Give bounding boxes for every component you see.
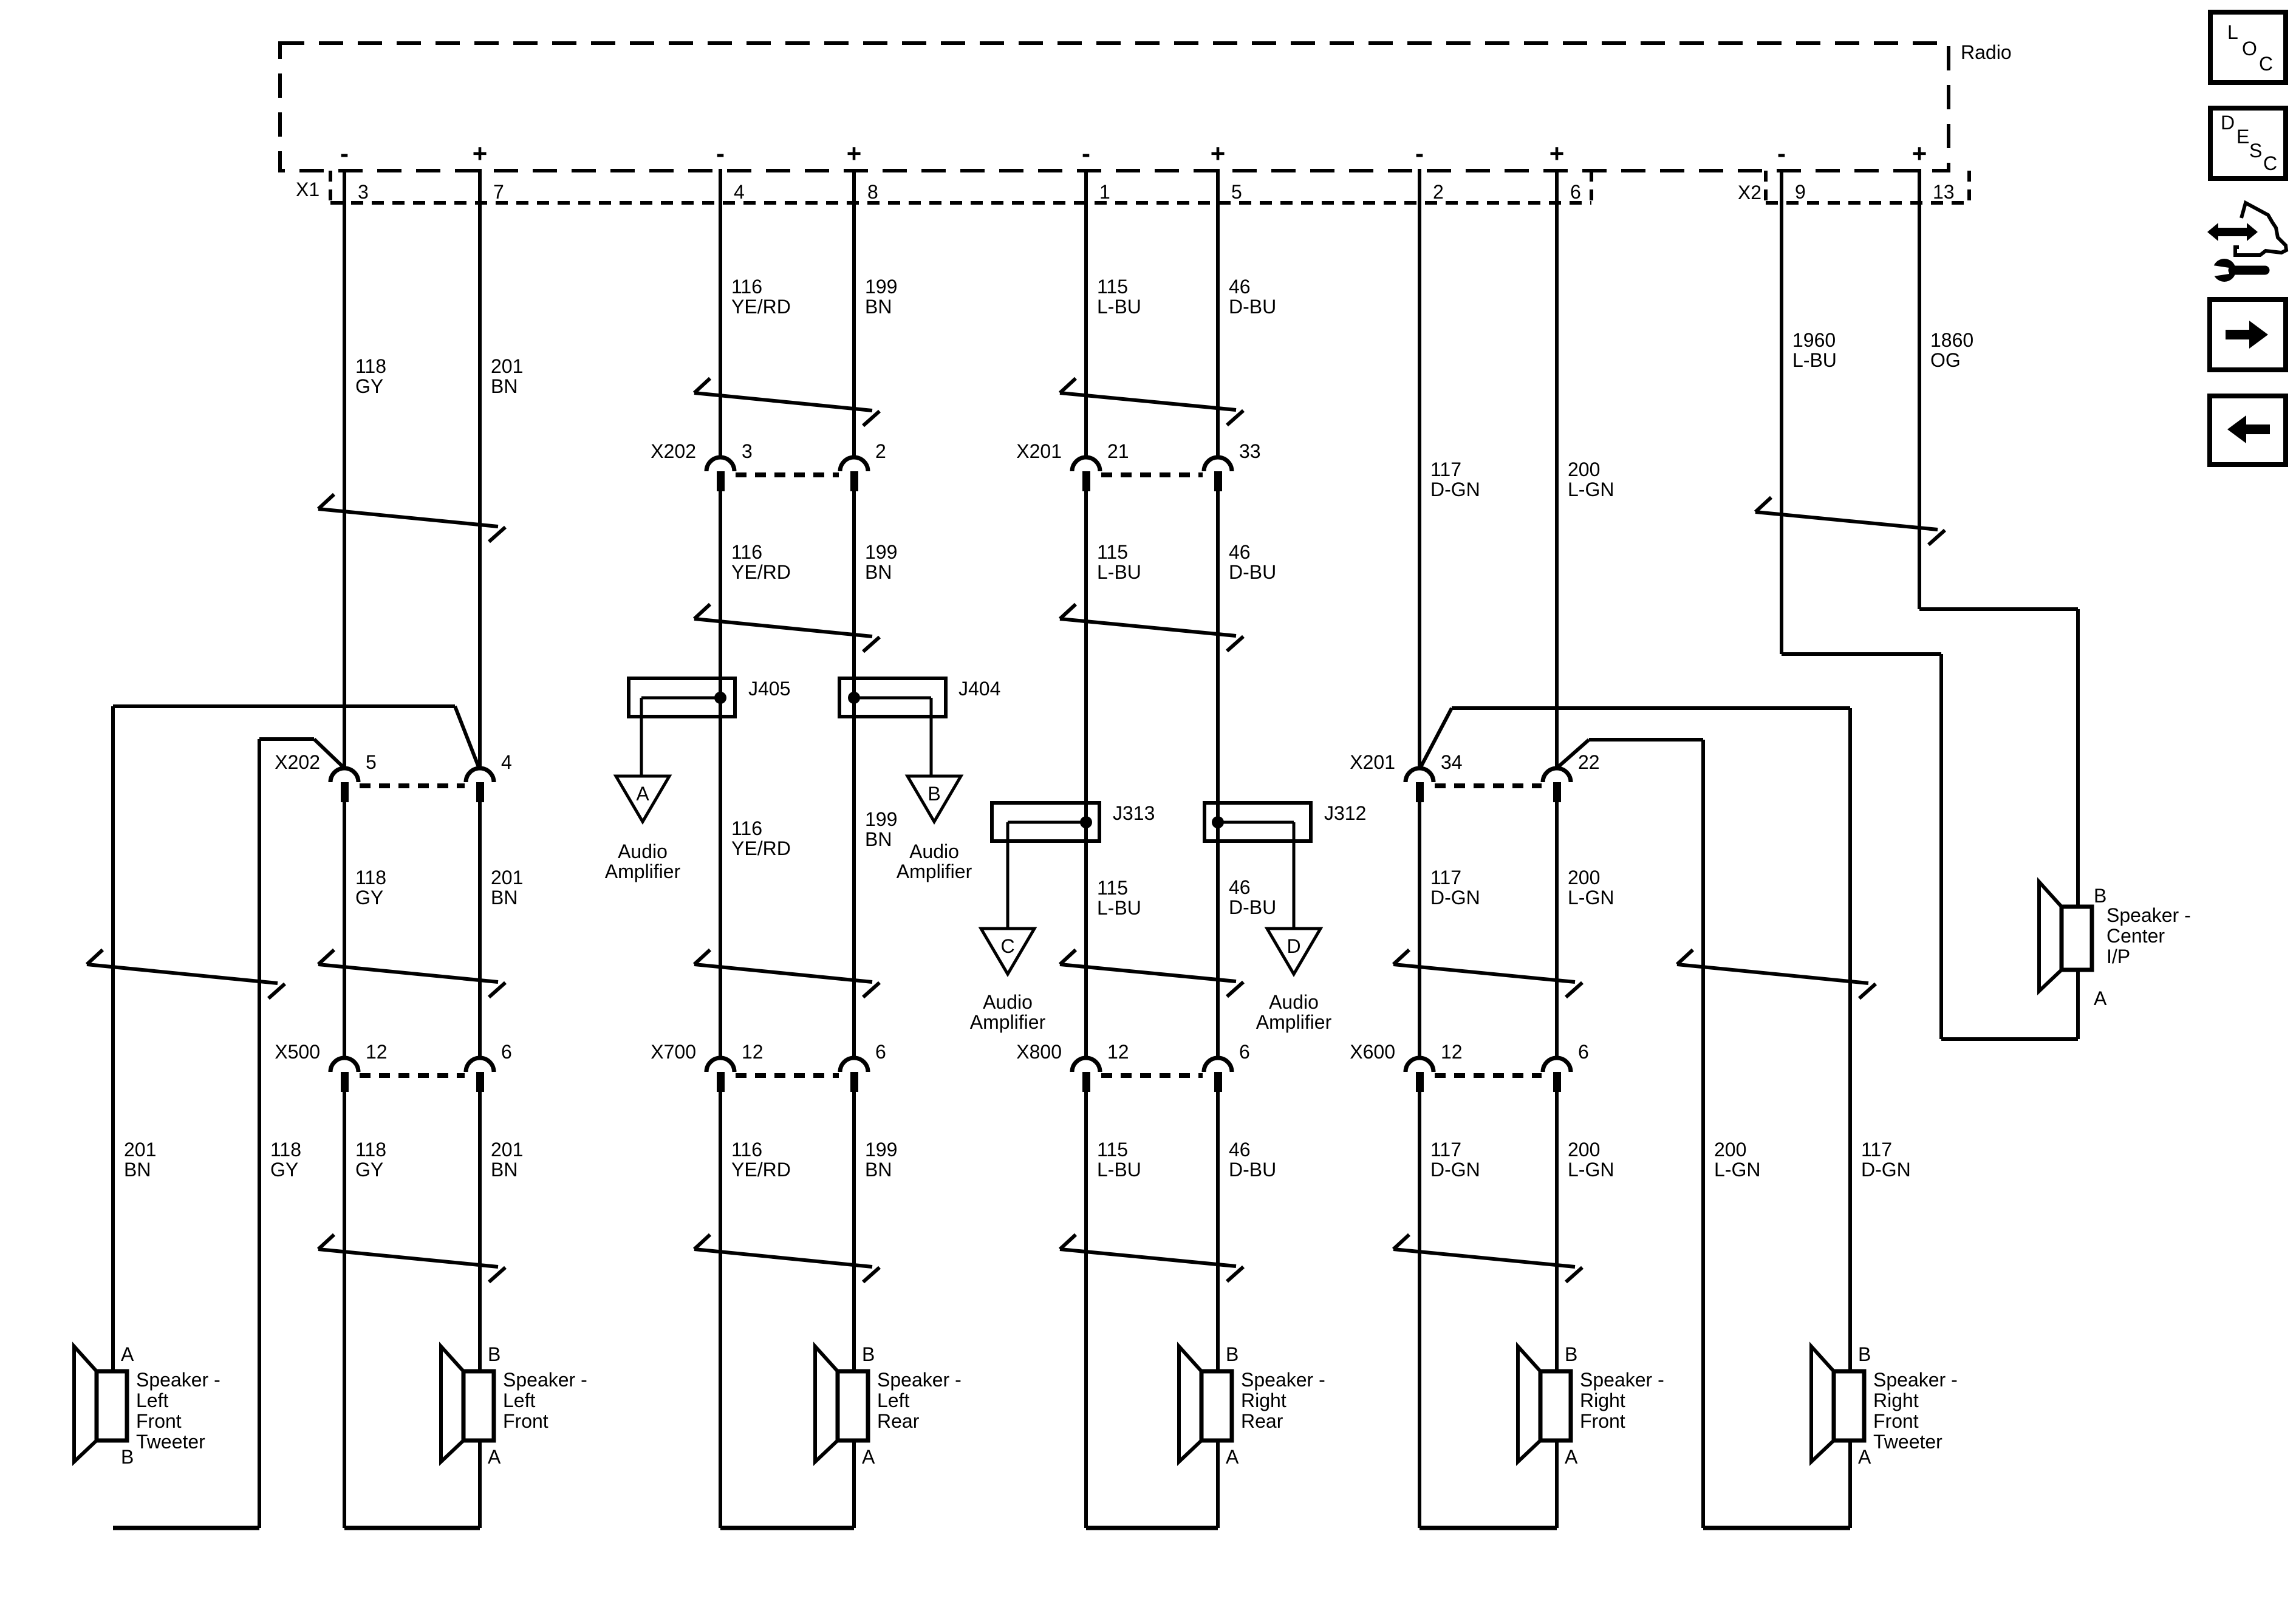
svg-text:L-BU: L-BU <box>1792 349 1837 371</box>
icon forward arrow box <box>2210 299 2286 370</box>
connector X202 pin 2 <box>840 440 886 491</box>
svg-text:4: 4 <box>734 181 745 203</box>
svg-text:D-GN: D-GN <box>1430 479 1480 500</box>
wire label 118 GY on X202-5 lower segment <box>355 867 386 909</box>
svg-text:X700: X700 <box>651 1041 696 1063</box>
svg-text:YE/RD: YE/RD <box>731 296 791 318</box>
svg-text:Tweeter: Tweeter <box>136 1431 205 1453</box>
svg-text:X201: X201 <box>1016 440 1062 462</box>
wire stub left rear speaker A to loop <box>852 1440 856 1528</box>
splice J312 bus bar and dot <box>1212 816 1294 828</box>
connector X202 pin-to-pin dashed link <box>736 472 839 477</box>
svg-text:D: D <box>1286 935 1300 957</box>
svg-text:B: B <box>121 1446 134 1468</box>
speaker Right Front Tweeter label <box>1873 1369 1958 1453</box>
wire 116 YE/RD (X202-3 through J405 to X700-12) <box>719 491 722 1058</box>
wire loop bottom (left rear) <box>720 1526 854 1530</box>
wire label 46 D-BU on X201-33 lower segment <box>1229 541 1276 583</box>
wire stub right rear speaker A to loop <box>1216 1440 1220 1528</box>
svg-text:Audio: Audio <box>1269 991 1319 1013</box>
connector X500 pin 6 <box>466 1041 512 1092</box>
svg-text:A: A <box>1858 1446 1871 1468</box>
wire label 46 D-BU on J312 lower segment <box>1229 876 1276 918</box>
svg-text:117: 117 <box>1430 867 1461 888</box>
svg-text:L-GN: L-GN <box>1568 887 1614 909</box>
svg-text:B: B <box>862 1343 875 1365</box>
wire loop bottom (right rear) <box>1086 1526 1218 1530</box>
connector X600 pin 6 <box>1543 1041 1589 1092</box>
connector X600 pin-to-pin dashed link <box>1435 1073 1542 1078</box>
svg-text:YE/RD: YE/RD <box>731 837 791 859</box>
wire 118 GY (X500-12 down to left front speaker loop) <box>343 1092 346 1528</box>
wire 46 D-BU (X201-33 through J312 to X800-6) <box>1216 491 1220 1058</box>
svg-text:117: 117 <box>1861 1139 1892 1161</box>
svg-text:200: 200 <box>1568 867 1600 888</box>
svg-text:X201: X201 <box>1350 751 1395 773</box>
wire crossing symbol over 116 YE/RD and 199 BN (lower) <box>694 950 880 997</box>
svg-text:5: 5 <box>366 751 377 773</box>
svg-text:Amplifier: Amplifier <box>1256 1011 1332 1033</box>
speaker symbol - Right Front <box>1518 1346 1571 1462</box>
svg-text:L-BU: L-BU <box>1097 1159 1141 1181</box>
wire crossing symbol over 1960 L-BU and 1860 OG <box>1755 497 1945 545</box>
wire label 201 BN on X1-7 segment <box>491 355 523 397</box>
svg-text:+: + <box>847 139 862 168</box>
wire crossing symbol over 117 D-GN and 200 L-GN (lower) <box>1393 950 1582 997</box>
svg-text:Tweeter: Tweeter <box>1873 1431 1942 1453</box>
svg-text:B: B <box>1226 1343 1239 1365</box>
svg-text:199: 199 <box>865 541 897 563</box>
svg-text:12: 12 <box>1107 1041 1129 1063</box>
svg-text:+: + <box>1549 139 1565 168</box>
svg-text:+: + <box>1211 139 1226 168</box>
svg-text:YE/RD: YE/RD <box>731 1159 791 1181</box>
svg-text:A: A <box>862 1446 875 1468</box>
svg-text:Audio: Audio <box>618 840 668 862</box>
svg-text:BN: BN <box>491 375 518 397</box>
splice J404 leg to amplifier B <box>930 698 933 776</box>
speaker symbol - Left Rear <box>815 1346 868 1462</box>
svg-text:12: 12 <box>366 1041 388 1063</box>
svg-text:L-GN: L-GN <box>1568 1159 1614 1181</box>
svg-text:O: O <box>2242 38 2257 60</box>
svg-text:117: 117 <box>1430 459 1461 480</box>
splice J405 box <box>629 678 735 717</box>
svg-text:116: 116 <box>731 817 762 839</box>
svg-text:J312: J312 <box>1324 802 1366 824</box>
svg-text:9: 9 <box>1795 181 1806 203</box>
svg-text:Speaker -: Speaker - <box>1241 1369 1325 1391</box>
svg-text:115: 115 <box>1097 1139 1128 1161</box>
connector X800 pin-to-pin dashed link <box>1101 1073 1203 1078</box>
svg-text:A: A <box>1565 1446 1578 1468</box>
wire label 115 L-BU on X201-21 lower segment <box>1097 541 1141 583</box>
connector X500 pin-to-pin dashed link <box>360 1073 465 1078</box>
svg-text:118: 118 <box>355 1139 386 1161</box>
wire crossing symbol over 116 YE/RD and 199 BN (upper) <box>694 378 880 426</box>
svg-text:A: A <box>1226 1446 1239 1468</box>
wire 1960 L-BU jog right <box>1782 652 1941 656</box>
svg-text:Speaker -: Speaker - <box>1873 1369 1958 1391</box>
speaker symbol - Left Front Tweeter <box>74 1346 127 1462</box>
wire crossing symbol over 115 L-BU and 46 D-BU (upper) <box>1060 378 1243 425</box>
svg-text:Audio: Audio <box>983 991 1033 1013</box>
connector X1 box (dashed) <box>330 171 1591 203</box>
svg-text:8: 8 <box>867 181 878 203</box>
wire 118 GY branch (X202-5 to tweeter B loop), horizontal + diagonal <box>259 739 343 767</box>
wire loop bottom (left front) <box>344 1526 480 1530</box>
svg-text:Front: Front <box>136 1410 182 1432</box>
svg-text:7: 7 <box>493 181 504 203</box>
wire label 201 BN on X500-6 bottom segment <box>491 1139 523 1181</box>
svg-text:46: 46 <box>1229 876 1251 898</box>
svg-text:-: - <box>1082 139 1090 168</box>
svg-text:J313: J313 <box>1113 802 1155 824</box>
connector X600 pin 12 <box>1406 1041 1463 1092</box>
svg-text:X2: X2 <box>1738 182 1761 203</box>
svg-text:21: 21 <box>1107 440 1129 462</box>
wire 115 L-BU (radio X1-1 down to X201-21) <box>1084 169 1088 457</box>
svg-text:OG: OG <box>1930 349 1961 371</box>
wire stub right front speaker A to loop <box>1555 1440 1559 1528</box>
wire crossing symbol over 118 GY and 201 BN (upper) <box>318 494 505 542</box>
wire crossing symbol over 117 D-GN and 200 L-GN (bottom) <box>1393 1235 1582 1282</box>
svg-text:199: 199 <box>865 1139 897 1161</box>
wire 199 BN (radio X1-8 down to X202-2) <box>852 169 856 457</box>
wire 1960 L-BU (radio X2-9), vertical <box>1780 169 1783 654</box>
svg-text:BN: BN <box>124 1159 151 1181</box>
svg-text:L-BU: L-BU <box>1097 897 1141 919</box>
svg-text:199: 199 <box>865 808 897 830</box>
wire label 116 YE/RD on J405 lower segment <box>731 817 791 859</box>
svg-text:GY: GY <box>355 375 383 397</box>
wire crossing symbol over tweeter 201 BN and 118 GY <box>87 950 285 998</box>
svg-text:46: 46 <box>1229 1139 1251 1161</box>
svg-text:X500: X500 <box>275 1041 320 1063</box>
wire loop bottom (right front tweeter) <box>1703 1526 1850 1530</box>
speaker Right Rear label <box>1241 1369 1325 1432</box>
svg-text:J405: J405 <box>748 678 790 700</box>
wire 201 BN branch vertical w1 <box>111 706 115 1371</box>
splice J405 bus bar and dot <box>641 692 726 704</box>
wire stub center speaker A <box>2076 970 2080 1039</box>
wire 201 BN (radio X1-7 down to X202-4) <box>478 169 482 768</box>
svg-text:Speaker -: Speaker - <box>1580 1369 1664 1391</box>
svg-text:116: 116 <box>731 1139 762 1161</box>
splice J313 bus bar and dot <box>1008 816 1092 828</box>
svg-text:Amplifier: Amplifier <box>970 1011 1046 1033</box>
svg-text:Left: Left <box>136 1389 168 1411</box>
wire 1860 OG jog right <box>1919 607 2078 611</box>
svg-text:Front: Front <box>1873 1410 1919 1432</box>
svg-text:46: 46 <box>1229 541 1251 563</box>
connector X201 pin-to-pin dashed link <box>1435 783 1542 788</box>
svg-text:S: S <box>2249 140 2262 162</box>
svg-text:Right: Right <box>1241 1389 1286 1411</box>
svg-text:BN: BN <box>865 1159 892 1181</box>
connector X201 pin 33 <box>1204 440 1261 491</box>
svg-text:1960: 1960 <box>1792 329 1836 351</box>
wire 118 GY (X202-5 to X500-12) <box>343 802 346 1058</box>
svg-text:Amplifier: Amplifier <box>605 861 681 882</box>
wire label 199 BN on J404 lower segment <box>865 808 897 850</box>
wire label 116 YE/RD on X700-12 bottom segment <box>731 1139 791 1181</box>
svg-text:E: E <box>2236 126 2249 148</box>
wire 199 BN (X202-2 through J404 to X700-6) <box>852 491 856 1058</box>
speaker symbol - Right Rear <box>1179 1346 1232 1462</box>
svg-text:6: 6 <box>1578 1041 1589 1063</box>
wire 117 D-GN (radio X1-2 down to X201-34) <box>1418 169 1421 768</box>
svg-text:L-BU: L-BU <box>1097 561 1141 583</box>
wire 200 L-GN (X600-6 down to right front speaker B) <box>1555 1092 1559 1371</box>
Radio (dashed component box) <box>280 43 1949 171</box>
splice J404 box <box>839 678 946 717</box>
wire label 118 GY on tweeter branch <box>270 1139 301 1181</box>
wire loop bottom (right front) <box>1420 1526 1557 1530</box>
svg-text:L-GN: L-GN <box>1714 1159 1760 1181</box>
wire label 115 L-BU on J313 lower segment <box>1097 877 1141 919</box>
connector X202 pin-to-pin dashed link <box>360 783 465 788</box>
svg-text:BN: BN <box>491 1159 518 1181</box>
svg-text:C: C <box>2259 53 2273 75</box>
wire loop bottom (left front tweeter) <box>113 1526 259 1530</box>
connector X800 pin 6 <box>1204 1041 1250 1092</box>
wire 200 L-GN branch vertical w11 <box>1701 740 1705 1528</box>
svg-text:X600: X600 <box>1350 1041 1395 1063</box>
svg-text:A: A <box>488 1446 501 1468</box>
wire 46 D-BU (radio X1-5 down to X201-33) <box>1216 169 1220 457</box>
svg-text:6: 6 <box>501 1041 512 1063</box>
svg-text:199: 199 <box>865 276 897 298</box>
connector X2 box (dashed) <box>1766 171 1969 203</box>
splice J405 leg to amplifier A <box>640 698 643 776</box>
svg-text:A: A <box>121 1343 134 1365</box>
svg-text:Right: Right <box>1873 1389 1919 1411</box>
wire label 117 D-GN on right tweeter branch <box>1861 1139 1911 1181</box>
svg-text:X202: X202 <box>275 751 320 773</box>
speaker symbol - Center I/P <box>2039 882 2092 991</box>
wire label 199 BN on X700-6 bottom segment <box>865 1139 897 1181</box>
wire label 201 BN on tweeter branch <box>124 1139 156 1181</box>
wire label 115 L-BU on X1-1 segment <box>1097 276 1141 318</box>
svg-text:Front: Front <box>503 1410 548 1432</box>
wire stub left front speaker A to loop <box>478 1440 482 1528</box>
splice J312 leg to amplifier D <box>1293 822 1296 929</box>
connector X202 pin 4 <box>466 751 512 802</box>
wire crossing symbol over 116 YE/RD and 199 BN (bottom) <box>694 1235 880 1282</box>
wire 116 YE/RD (X700-12 down to left rear speaker loop) <box>719 1092 722 1528</box>
svg-text:115: 115 <box>1097 276 1128 298</box>
wire label 1860 OG on X2-13 segment <box>1930 329 1973 371</box>
wire label 199 BN on X202-2 lower segment <box>865 541 897 583</box>
svg-text:201: 201 <box>491 867 523 888</box>
svg-text:1: 1 <box>1099 181 1110 203</box>
svg-text:Amplifier: Amplifier <box>897 861 972 882</box>
wire label 118 GY on X500-12 bottom segment <box>355 1139 386 1181</box>
audio amplifier A label <box>605 840 681 882</box>
wire 116 YE/RD (radio X1-4 down to X202-3) <box>719 169 722 457</box>
svg-text:200: 200 <box>1714 1139 1746 1161</box>
icon wrench <box>2209 259 2265 282</box>
connector X201 pin 21 <box>1072 440 1129 491</box>
wire 117 D-GN (X201-34 to X600-12) <box>1418 802 1421 1058</box>
wire label 46 D-BU on X1-5 segment <box>1229 276 1276 318</box>
svg-text:BN: BN <box>865 828 892 850</box>
svg-text:Speaker -: Speaker - <box>2106 904 2191 926</box>
svg-text:116: 116 <box>731 276 762 298</box>
connector X700 pin 12 <box>706 1041 764 1092</box>
wire label 200 L-GN on X201-22 lower segment <box>1568 867 1614 909</box>
icon LOC box <box>2210 12 2286 83</box>
wire 46 D-BU (X800-6 down to right rear speaker B) <box>1216 1092 1220 1371</box>
svg-text:6: 6 <box>1239 1041 1250 1063</box>
svg-text:B: B <box>488 1343 501 1365</box>
svg-text:Speaker -: Speaker - <box>877 1369 962 1391</box>
svg-text:L-BU: L-BU <box>1097 296 1141 318</box>
svg-text:A: A <box>636 783 649 805</box>
svg-text:Radio: Radio <box>1961 41 2012 63</box>
icon vehicle outline with double arrow <box>2207 203 2286 255</box>
svg-text:46: 46 <box>1229 276 1251 298</box>
svg-text:Left: Left <box>877 1389 909 1411</box>
wire 118 GY branch vertical w2 <box>258 739 261 1528</box>
svg-text:201: 201 <box>491 355 523 377</box>
svg-text:2: 2 <box>1433 181 1444 203</box>
svg-text:GY: GY <box>270 1159 298 1181</box>
icon back arrow box <box>2210 396 2286 465</box>
svg-text:YE/RD: YE/RD <box>731 561 791 583</box>
speaker Center I/P label <box>2106 904 2191 967</box>
wire 1960 L-BU to center speaker A <box>1941 1037 2078 1041</box>
wire label 199 BN on X1-8 segment <box>865 276 897 318</box>
svg-text:D-GN: D-GN <box>1430 887 1480 909</box>
icon DESC box <box>2210 108 2286 179</box>
svg-text:I/P: I/P <box>2106 946 2130 967</box>
svg-text:C: C <box>2263 152 2277 174</box>
svg-text:J404: J404 <box>958 678 1000 700</box>
svg-text:D-BU: D-BU <box>1229 1159 1276 1181</box>
splice J313 leg to amplifier C <box>1006 822 1010 929</box>
svg-text:Center: Center <box>2106 925 2165 947</box>
wire 201 BN (X202-4 to X500-6) <box>478 802 482 1058</box>
svg-text:+: + <box>473 139 488 168</box>
wire 1960 L-BU vertical down <box>1939 654 1943 1039</box>
svg-text:33: 33 <box>1239 440 1261 462</box>
wire label 200 L-GN on X600-6 bottom segment <box>1568 1139 1614 1181</box>
wire 200 L-GN (X201-22 to X600-6) <box>1555 802 1559 1058</box>
connector X700 pin-to-pin dashed link <box>736 1073 839 1078</box>
connector X500 pin 12 <box>330 1041 388 1092</box>
wire label 117 D-GN on X201-34 lower segment <box>1430 867 1480 909</box>
audio amplifier B label <box>897 840 972 882</box>
svg-text:4: 4 <box>501 751 512 773</box>
svg-text:BN: BN <box>491 887 518 909</box>
wire label 46 D-BU on X800-6 bottom segment <box>1229 1139 1276 1181</box>
svg-text:13: 13 <box>1933 181 1955 203</box>
svg-text:34: 34 <box>1441 751 1463 773</box>
wire 117 D-GN (X600-12 down to right front speaker loop) <box>1418 1092 1421 1528</box>
svg-text:A: A <box>2094 987 2107 1009</box>
svg-text:118: 118 <box>355 355 386 377</box>
svg-text:6: 6 <box>1570 181 1581 203</box>
wire 117 D-GN branch (X201-34 to R front tweeter), diagonal + horizontal <box>1421 708 1850 767</box>
splice J404 bus bar and dot <box>848 692 931 704</box>
svg-text:-: - <box>716 139 725 168</box>
svg-text:115: 115 <box>1097 877 1128 899</box>
wire crossing symbol over tweeter 200 L-GN and 117 D-GN <box>1677 950 1876 998</box>
wire 200 L-GN branch (X201-22 to R front tweeter loop), diagonal + horizontal <box>1558 740 1703 767</box>
wire label 201 BN on X202-4 lower segment <box>491 867 523 909</box>
connector X201 pin 34 <box>1406 751 1463 802</box>
connector X202 pin 3 <box>706 440 753 491</box>
svg-text:B: B <box>1565 1343 1577 1365</box>
wire label 116 YE/RD on X202-3 lower segment <box>731 541 791 583</box>
audio amplifier B (triangle) <box>907 776 961 822</box>
svg-text:12: 12 <box>1441 1041 1463 1063</box>
svg-text:+: + <box>1912 139 1927 168</box>
svg-text:L: L <box>2227 21 2238 43</box>
wire 200 L-GN (radio X1-6 down to X201-22) <box>1555 169 1559 768</box>
svg-text:201: 201 <box>124 1139 156 1161</box>
svg-text:Speaker -: Speaker - <box>503 1369 587 1391</box>
connector X201 pin 22 <box>1543 751 1600 802</box>
svg-text:X1: X1 <box>296 179 319 200</box>
svg-text:200: 200 <box>1568 459 1600 480</box>
speaker Left Front label <box>503 1369 587 1432</box>
splice J312 box <box>1204 803 1311 841</box>
svg-text:Speaker -: Speaker - <box>136 1369 220 1391</box>
connector X700 pin 6 <box>840 1041 886 1092</box>
wire label 117 D-GN on X1-2 segment <box>1430 459 1480 500</box>
wire label 1960 L-BU on X2-9 segment <box>1792 329 1837 371</box>
svg-text:3: 3 <box>358 181 369 203</box>
wire 201 BN branch (X202-4 to L front tweeter A), horizontal + diagonal <box>113 706 479 767</box>
splice J313 box <box>992 803 1099 841</box>
svg-text:Audio: Audio <box>909 840 959 862</box>
svg-text:22: 22 <box>1578 751 1600 773</box>
svg-text:D-BU: D-BU <box>1229 296 1276 318</box>
wire 1860 OG (radio X2-13), vertical <box>1918 169 1921 609</box>
audio amplifier C label <box>970 991 1046 1033</box>
connector X800 pin 12 <box>1072 1041 1129 1092</box>
svg-text:116: 116 <box>731 541 762 563</box>
connector X201 pin-to-pin dashed link <box>1101 472 1203 477</box>
speaker symbol - Right Front Tweeter <box>1811 1346 1864 1462</box>
svg-text:BN: BN <box>865 296 892 318</box>
speaker Left Rear label <box>877 1369 962 1432</box>
svg-text:D-GN: D-GN <box>1430 1159 1480 1181</box>
wire crossing symbol over 115 L-BU and 46 D-BU (bottom) <box>1060 1235 1243 1281</box>
audio amplifier C (triangle) <box>981 929 1034 974</box>
svg-text:1860: 1860 <box>1930 329 1973 351</box>
wire label 118 GY on X1-3 segment <box>355 355 386 397</box>
wire label 117 D-GN on X600-12 bottom segment <box>1430 1139 1480 1181</box>
svg-text:201: 201 <box>491 1139 523 1161</box>
wire crossing symbol over 116 YE/RD and 199 BN (mid) <box>694 604 880 652</box>
svg-text:6: 6 <box>875 1041 886 1063</box>
speaker symbol - Left Front <box>441 1346 494 1462</box>
svg-text:117: 117 <box>1430 1139 1461 1161</box>
speaker Right Front label <box>1580 1369 1664 1432</box>
audio amplifier D label <box>1256 991 1332 1033</box>
svg-text:B: B <box>928 783 940 805</box>
svg-text:C: C <box>1000 935 1014 957</box>
wire stub right front tweeter A to loop <box>1848 1440 1852 1528</box>
wire label 200 L-GN on right tweeter branch <box>1714 1139 1760 1181</box>
svg-text:2: 2 <box>875 440 886 462</box>
svg-text:200: 200 <box>1568 1139 1600 1161</box>
wire crossing symbol over 115 L-BU and 46 D-BU (lower) <box>1060 950 1243 997</box>
